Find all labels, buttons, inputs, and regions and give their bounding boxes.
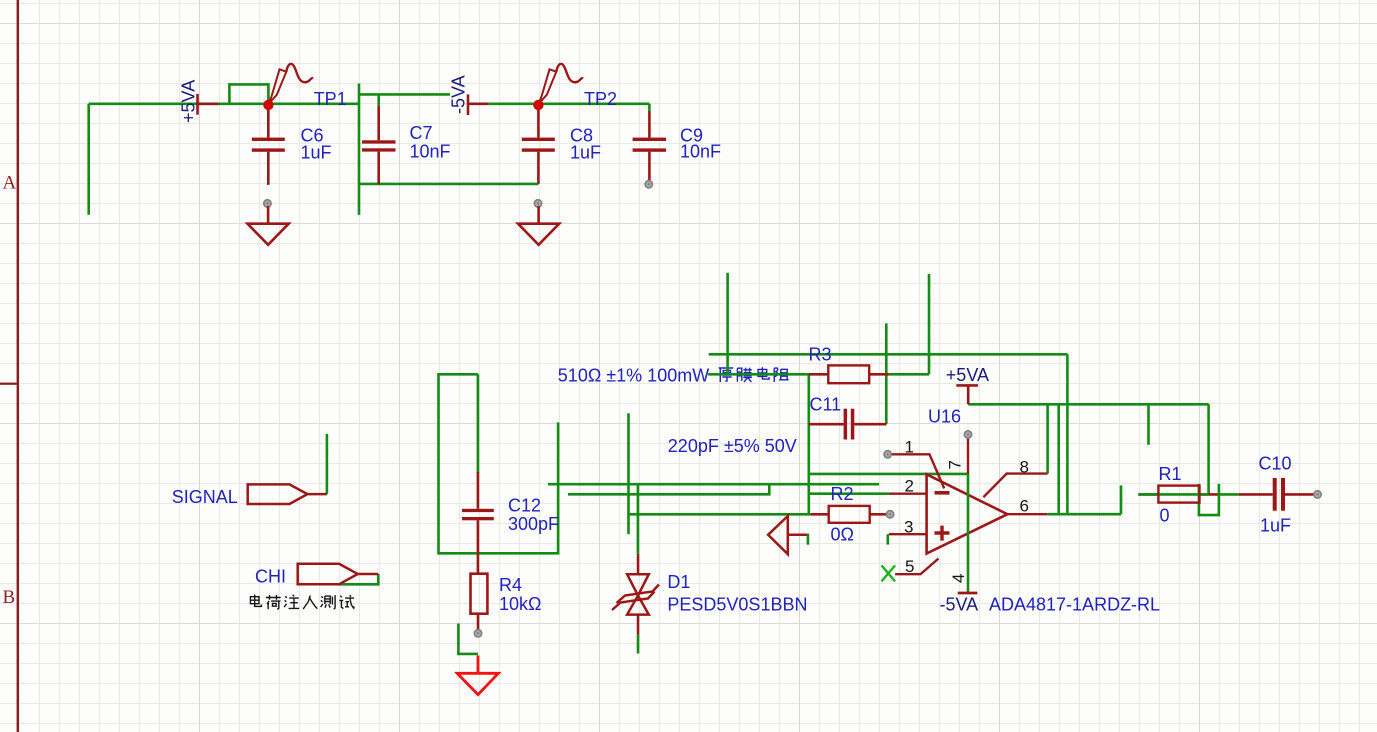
svg-text:0: 0 [1160, 506, 1170, 526]
capacitor C10 [1239, 454, 1321, 536]
plus input mark [935, 526, 950, 541]
frame row divider tick [0, 383, 17, 385]
wire pin2 [809, 492, 889, 495]
wire +5VA down to R1 [1207, 404, 1210, 494]
port arrow (left pointing) [768, 516, 807, 554]
svg-text:C7: C7 [410, 123, 433, 143]
svg-text:C12: C12 [508, 496, 541, 516]
wire pin6 drop a [1057, 404, 1060, 514]
wire C7 top stub [377, 94, 380, 106]
wire C11 right vertical [885, 323, 888, 424]
wire upper horizontal bus [709, 353, 1068, 356]
wire D1 bottom stub [637, 634, 640, 653]
wire C7 vertical [358, 84, 361, 215]
capacitor C12 [462, 472, 559, 574]
capacitor C6 [252, 110, 332, 185]
wire pin7 to -5VA vertical [967, 474, 970, 593]
wire +5VA horizontal [89, 103, 359, 106]
test point TP2 [533, 64, 583, 110]
wire pin6 horizontal [1047, 513, 1121, 516]
TVS diode D1 [612, 554, 659, 635]
svg-text:C10: C10 [1259, 454, 1292, 474]
svg-text:1: 1 [905, 437, 914, 456]
svg-text:PESD5V0S1BBN: PESD5V0S1BBN [667, 595, 807, 615]
wire -5VA horizontal upper [359, 93, 450, 96]
svg-text:R4: R4 [499, 575, 522, 595]
wire C9 corner [648, 104, 651, 111]
pin 6 [1007, 513, 1047, 515]
resistor R3 [809, 345, 889, 384]
pin 1 [891, 454, 944, 488]
resistor R2 [810, 484, 894, 544]
port CHI [255, 564, 378, 587]
wire R2 left [629, 513, 811, 516]
minus input mark [935, 491, 950, 495]
wire C12 top lead [477, 374, 480, 473]
wire pin6 drop b [1066, 354, 1069, 514]
capacitor C8 [522, 110, 601, 184]
wire C12 box top [439, 374, 559, 553]
wire stub x1148 [1147, 404, 1150, 445]
svg-text:10nF: 10nF [680, 141, 721, 161]
resistor R1 [1138, 464, 1219, 526]
power flag +5VA (amp) [956, 385, 978, 404]
wire CHI port link [339, 574, 379, 584]
capacitor C9 [633, 111, 721, 188]
pin 5 [895, 559, 938, 575]
power flag -5VA (amp) [958, 592, 978, 595]
svg-text:ADA4817-1ARDZ-RL: ADA4817-1ARDZ-RL [989, 595, 1160, 615]
svg-text:TP2: TP2 [584, 89, 617, 109]
capacitor C7 [362, 106, 451, 184]
svg-text:SIGNAL: SIGNAL [172, 487, 238, 507]
svg-text:-5VA: -5VA [940, 595, 979, 615]
svg-text:1uF: 1uF [570, 142, 601, 162]
svg-text:6: 6 [1020, 497, 1029, 516]
svg-text:300pF: 300pF [508, 514, 559, 534]
power flag -5VA [468, 94, 489, 115]
svg-text:R3: R3 [809, 345, 832, 365]
sheet frame left border [17, 0, 19, 732]
wire pin8 vertical [1046, 404, 1049, 473]
wire TP1 bump [229, 84, 268, 103]
value label thick film resistor (drawn CJK) [719, 367, 789, 382]
wire tall vertical left [726, 273, 729, 375]
svg-text:-5VA: -5VA [448, 75, 468, 114]
wire stub x1121 [1120, 485, 1123, 514]
wire R4 gnd link [458, 624, 478, 654]
svg-text:U16: U16 [928, 407, 961, 427]
svg-text:2: 2 [905, 477, 914, 496]
wire arrow stub [807, 534, 810, 545]
ground under R4 (highlighted) [457, 656, 498, 695]
wire TP2 horizontal [489, 103, 650, 106]
port SIGNAL [172, 484, 327, 507]
test point TP1 [263, 64, 313, 110]
wire R3 left [708, 373, 809, 376]
wire pin3 stub [886, 534, 889, 544]
svg-text:220pF ±5% 50V: 220pF ±5% 50V [668, 436, 797, 456]
svg-text:5: 5 [905, 557, 914, 576]
wire +5VA horizontal [968, 403, 1208, 406]
svg-text:3: 3 [904, 518, 913, 537]
svg-text:R1: R1 [1159, 464, 1182, 484]
svg-text:+5VA: +5VA [946, 365, 989, 385]
svg-text:0Ω: 0Ω [831, 524, 854, 544]
wire SIGNAL vertical [326, 434, 329, 494]
svg-text:10nF: 10nF [410, 141, 451, 161]
wire D1 vertical [637, 484, 640, 554]
pin 2 [889, 493, 927, 495]
wire pin7 horizontal [809, 473, 968, 476]
svg-text:510Ω ±1% 100mW: 510Ω ±1% 100mW [558, 366, 709, 386]
svg-text:1uF: 1uF [301, 142, 332, 162]
svg-text:10kΩ: 10kΩ [499, 594, 541, 614]
svg-text:R2: R2 [831, 484, 854, 504]
svg-text:D1: D1 [667, 572, 690, 592]
svg-text:4: 4 [949, 574, 968, 583]
svg-text:TP1: TP1 [314, 89, 347, 109]
wire mid horizontal A [548, 483, 879, 486]
wire bottom link C7-C8 [359, 183, 538, 186]
wire tall vertical right [928, 274, 931, 374]
wire R3 right [889, 373, 929, 376]
resistor R4 [471, 574, 542, 637]
svg-text:8: 8 [1020, 458, 1029, 477]
wire main left vertical (R3/C11/R2) [807, 373, 810, 514]
power flag +5VA [198, 94, 219, 115]
pin 8 [983, 474, 1047, 498]
body triangle [927, 474, 1008, 553]
svg-text:1uF: 1uF [1260, 515, 1291, 535]
ground under C8 [518, 200, 559, 245]
pin 7 [967, 438, 969, 475]
capacitor C11 [809, 395, 887, 440]
ground under C6 [248, 200, 289, 245]
no-connect cross pin5 [882, 565, 896, 581]
pin 3 [889, 533, 927, 535]
svg-text:CHI: CHI [255, 567, 286, 587]
svg-text:+5VA: +5VA [179, 80, 199, 123]
wire mid horizontal B with jog [568, 484, 769, 494]
wire left drop [87, 104, 90, 215]
svg-text:B: B [3, 587, 16, 608]
op-amp U16 [882, 407, 1048, 584]
svg-text:C11: C11 [810, 395, 842, 415]
wire stub vertical x628 [627, 413, 630, 534]
svg-text:A: A [3, 173, 17, 194]
svg-text:7: 7 [946, 460, 965, 469]
note text charge injection test (drawn CJK) [250, 595, 354, 610]
wire R1 to C10 [1219, 493, 1239, 496]
